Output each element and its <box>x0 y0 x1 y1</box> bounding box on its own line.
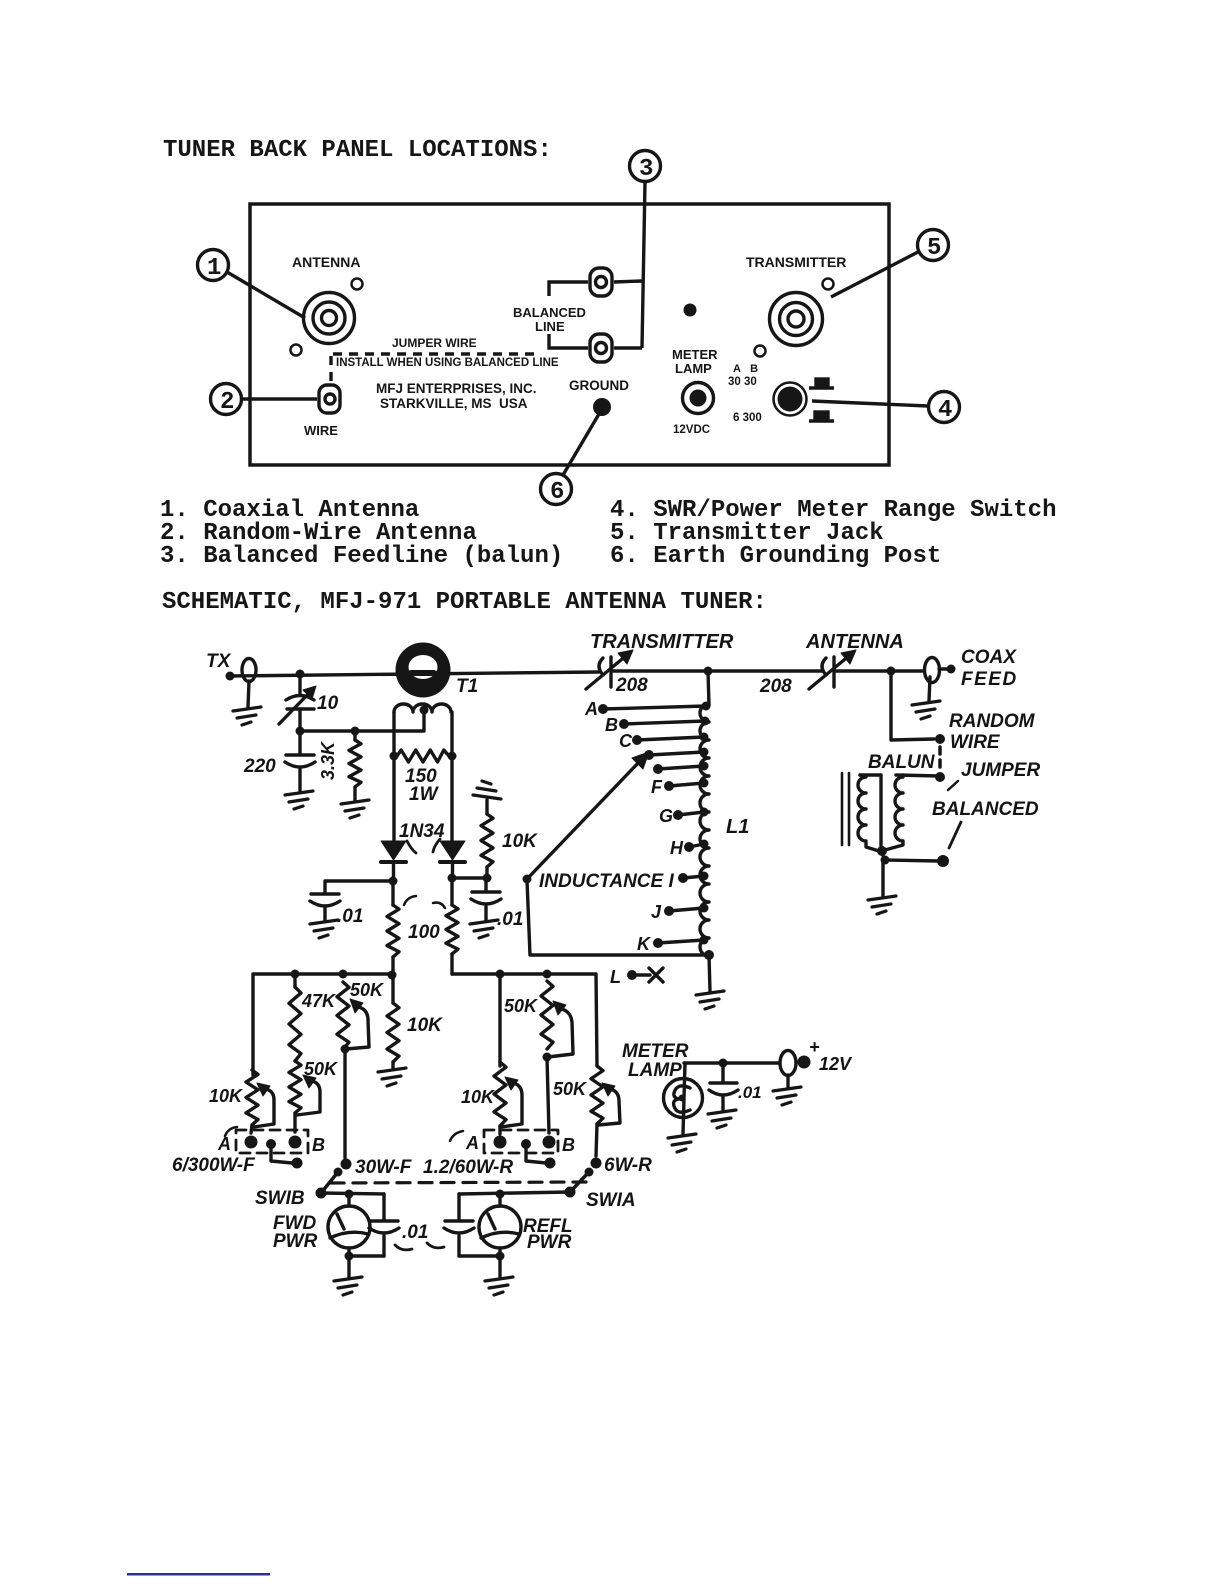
capacitor .01 lamp <box>709 1063 738 1110</box>
svg-text:50K: 50K <box>553 1079 588 1099</box>
node FWD meter top <box>345 1190 354 1199</box>
potentiometer 50K fifth <box>591 1066 620 1156</box>
wire mid contact to 6/300W-F <box>271 1144 292 1163</box>
T1 secondary winding <box>394 704 451 712</box>
node TX input <box>226 672 235 681</box>
ground under 220 <box>285 791 313 809</box>
svg-text:TRANSMITTER: TRANSMITTER <box>746 254 846 270</box>
node coax feed tip <box>947 665 956 674</box>
tap D <box>644 748 709 761</box>
node D1 cathode <box>389 877 398 886</box>
wiper arrow to tap D <box>527 752 649 879</box>
svg-text:47K: 47K <box>301 991 337 1011</box>
wire REFL top <box>459 1192 570 1194</box>
node JUMPER post <box>935 772 945 782</box>
node coil top junction <box>704 667 713 676</box>
wire balun to balanced post <box>882 851 938 861</box>
svg-text:2: 2 <box>220 389 234 416</box>
wire balun top to jumper post <box>896 775 940 776</box>
svg-text:ANTENNA: ANTENNA <box>292 254 360 270</box>
svg-text:12VDC: 12VDC <box>673 424 710 436</box>
tap C <box>619 731 709 751</box>
callout 4 <box>812 392 960 423</box>
capacitor .01 right <box>471 878 501 921</box>
balun left winding <box>858 775 879 851</box>
wire lamp to 12V <box>684 1061 779 1064</box>
node 150 ohm left <box>390 752 399 761</box>
svg-text:T1: T1 <box>456 676 478 697</box>
svg-text:.01: .01 <box>402 1222 428 1243</box>
callout 3 <box>630 151 661 349</box>
capacitor C 10 (variable) <box>279 674 316 731</box>
svg-text:SWIA: SWIA <box>586 1190 636 1211</box>
switch contact A right <box>494 1136 507 1149</box>
switch SW1A wiper <box>565 1168 594 1198</box>
antenna SO-239 jack <box>291 279 363 356</box>
svg-text:METER: METER <box>622 1041 689 1062</box>
svg-text:INDUCTANCE I: INDUCTANCE I <box>539 871 674 892</box>
svg-text:6: 6 <box>550 479 564 506</box>
svg-text:30 30: 30 30 <box>728 376 757 388</box>
svg-text:10: 10 <box>317 693 339 714</box>
node FWD meter bottom <box>345 1252 354 1261</box>
capacitor 220 <box>285 731 315 791</box>
svg-text:A: A <box>217 1134 231 1154</box>
node REFL meter bottom <box>496 1252 505 1261</box>
svg-text:STARKVILLE, MS USA: STARKVILLE, MS USA <box>380 396 528 411</box>
node balun bottom second <box>881 856 890 865</box>
node contact 6W-R <box>591 1158 602 1169</box>
wire bus to 10K right <box>498 974 501 1066</box>
svg-text:220: 220 <box>243 756 276 777</box>
svg-text:L1: L1 <box>726 816 749 838</box>
earth ground post <box>593 398 611 416</box>
svg-text:LAMP: LAMP <box>675 361 712 376</box>
svg-text:J: J <box>651 902 662 922</box>
ground under REFL meter <box>485 1277 513 1295</box>
switch contact B right <box>543 1136 556 1149</box>
callout 1 <box>198 250 306 319</box>
svg-text:BALANCED: BALANCED <box>513 305 586 320</box>
svg-text:A: A <box>584 699 598 719</box>
coax feed loop <box>925 658 949 683</box>
svg-text:3.3K: 3.3K <box>318 740 338 780</box>
svg-text:100: 100 <box>408 922 440 943</box>
svg-text:GROUND: GROUND <box>569 378 629 393</box>
node 50K third bottom <box>341 1045 350 1054</box>
callout 6 <box>541 414 600 505</box>
svg-text:50K: 50K <box>304 1059 339 1079</box>
capacitor 208 antenna (variable) <box>809 650 856 689</box>
ground at TX <box>233 707 261 725</box>
node bus 50K fourth <box>543 970 552 979</box>
jumper wire dashed line <box>331 354 541 386</box>
tap B <box>605 715 710 735</box>
switch SW1B wiper <box>316 1168 343 1199</box>
resistor 10K pulldown <box>481 800 493 878</box>
connector 12V <box>780 1051 811 1088</box>
tap H <box>670 838 709 858</box>
svg-text:H: H <box>670 838 684 858</box>
arc mark left box <box>225 1127 237 1136</box>
svg-text:10K: 10K <box>407 1015 443 1036</box>
svg-text:TRANSMITTER: TRANSMITTER <box>590 631 734 653</box>
node 50K fourth bottom <box>543 1053 552 1062</box>
svg-text:C: C <box>619 731 633 751</box>
callout 5 <box>831 230 949 298</box>
wire junction to coil top <box>708 671 709 705</box>
node wafer common <box>523 875 532 884</box>
panel outline <box>250 204 889 465</box>
node coil bottom <box>704 950 714 960</box>
svg-text:5: 5 <box>927 235 941 262</box>
tick arcs near 100 <box>404 896 445 908</box>
svg-text:BALANCED: BALANCED <box>932 799 1039 820</box>
wire T1 secondary left lead <box>392 712 395 841</box>
node antenna output junction <box>887 667 896 676</box>
ground under coil <box>696 991 724 1009</box>
tap K <box>637 934 709 954</box>
balanced post bracket <box>549 281 642 348</box>
blue footer line <box>127 1573 270 1576</box>
svg-text:PWR: PWR <box>273 1231 318 1252</box>
capacitor .01 left <box>310 881 393 921</box>
node junction C10 <box>296 670 305 679</box>
svg-text:METER: METER <box>672 347 718 362</box>
wire binding post <box>319 385 340 413</box>
potentiometer 10K right <box>494 1062 522 1134</box>
wire to random wire post <box>891 671 934 740</box>
svg-text:6W-R: 6W-R <box>604 1155 652 1176</box>
lamp filament dot <box>679 1095 686 1102</box>
switch contact A left <box>245 1136 258 1149</box>
node D2 cathode <box>448 874 457 883</box>
svg-text:B: B <box>312 1135 325 1155</box>
wire jumper dashed <box>938 747 942 771</box>
wire switch wafer outline <box>527 880 709 955</box>
capacitor .01 FWD <box>349 1194 399 1256</box>
dashed wafer box right <box>484 1130 558 1153</box>
node junction under C10 <box>296 727 305 736</box>
switch position icon lower <box>809 412 834 421</box>
node junction 3.3K <box>351 727 360 736</box>
svg-text:BALUN: BALUN <box>868 752 936 773</box>
node REFL meter top <box>496 1190 505 1199</box>
ground flipped above 10K <box>473 781 501 799</box>
pointer stroke balanced <box>949 822 961 848</box>
switch contact B left <box>289 1136 302 1149</box>
ground under left .01 <box>310 920 338 938</box>
svg-text:6/300W-F: 6/300W-F <box>172 1155 256 1176</box>
inductor L1 coil <box>700 704 709 956</box>
potentiometer 50K second <box>289 1061 320 1132</box>
node balun bottom <box>877 846 887 856</box>
meter REFL PWR <box>479 1194 521 1277</box>
svg-text:50K: 50K <box>350 980 385 1000</box>
transmitter SO-239 jack <box>755 279 834 357</box>
wire left bus <box>253 974 392 1075</box>
svg-text:ANTENNA: ANTENNA <box>805 631 904 653</box>
switch contact mid right <box>521 1139 531 1149</box>
range switch knob <box>774 383 807 416</box>
svg-text:L: L <box>610 967 621 987</box>
svg-text:208: 208 <box>759 676 792 697</box>
wire main line TX to transmitter cap <box>230 672 599 676</box>
ground under lamp cap <box>708 1110 736 1128</box>
callout 2 <box>211 384 318 415</box>
wire T1 secondary right lead <box>450 712 453 841</box>
node bus 47K <box>291 970 300 979</box>
svg-text:30W-F: 30W-F <box>355 1157 413 1178</box>
wire antenna cap to coax <box>836 669 922 672</box>
svg-text:INSTALL WHEN USING BALANCED LI: INSTALL WHEN USING BALANCED LINE <box>336 357 559 369</box>
tick arcs near 1N34 <box>407 839 440 853</box>
diode D2 1N34 <box>440 841 465 878</box>
meter lamp jack <box>683 383 714 414</box>
ground under balun <box>868 896 896 914</box>
node 10K bottom <box>483 874 492 883</box>
dashed gang linkage <box>331 1182 586 1183</box>
meter FWD PWR <box>328 1194 370 1277</box>
resistor 150 1W <box>397 750 449 762</box>
svg-text:10K: 10K <box>502 831 538 852</box>
balun right winding <box>885 775 903 850</box>
transformer T1 toroid <box>396 643 451 698</box>
ground under coax loop <box>929 677 930 701</box>
svg-text:3: 3 <box>639 156 653 183</box>
svg-text:50K: 50K <box>504 996 539 1016</box>
svg-text:.01: .01 <box>337 906 363 927</box>
tap G <box>659 806 709 826</box>
svg-text:A B: A B <box>733 363 758 375</box>
svg-text:WIRE: WIRE <box>304 423 338 438</box>
balanced line post upper <box>590 268 612 296</box>
switch position icon upper <box>809 379 834 388</box>
wire D2 to 10K <box>452 876 487 879</box>
resistor 100 left <box>387 881 399 976</box>
resistor 10K to ground <box>387 976 399 1068</box>
resistor 3.3K <box>349 731 361 801</box>
ground under 3.3K <box>341 800 369 818</box>
svg-text:A: A <box>465 1133 479 1153</box>
tick arcs under .01 <box>395 1243 444 1250</box>
svg-text:208: 208 <box>615 675 648 696</box>
svg-text:4: 4 <box>938 397 952 424</box>
svg-text:SWIB: SWIB <box>255 1188 305 1209</box>
svg-text:TX: TX <box>206 651 232 672</box>
node BALANCED post <box>937 855 949 867</box>
ground under FWD meter <box>334 1277 362 1295</box>
svg-text:FEED: FEED <box>961 669 1018 690</box>
wire between 208 caps <box>613 669 822 672</box>
svg-text:B: B <box>562 1135 575 1155</box>
svg-text:10K: 10K <box>461 1087 496 1107</box>
node contact 1.2/60W-R <box>545 1158 556 1169</box>
wire balun to ground <box>881 860 884 896</box>
svg-text:10K: 10K <box>209 1086 244 1106</box>
capacitor 208 transmitter (variable) <box>586 650 633 689</box>
switch contact mid left <box>266 1139 276 1149</box>
lamp meter lamp <box>664 1063 703 1134</box>
svg-text:.01: .01 <box>497 909 523 930</box>
svg-text:LAMP: LAMP <box>628 1060 682 1081</box>
svg-text:JUMPER: JUMPER <box>961 760 1040 781</box>
svg-text:1: 1 <box>207 255 221 282</box>
svg-text:B: B <box>605 715 618 735</box>
svg-text:COAX: COAX <box>961 647 1017 668</box>
svg-text:1N34: 1N34 <box>399 821 445 842</box>
svg-text:RANDOM: RANDOM <box>949 711 1036 732</box>
node bus 50K <box>339 970 348 979</box>
wire right bus <box>452 974 597 1066</box>
tap A <box>584 699 711 719</box>
tap L unused with X <box>610 967 663 987</box>
tap I with INDUCTANCE label <box>539 871 709 892</box>
node contact 6/300W-F <box>292 1158 303 1169</box>
svg-text:1.2/60W-R: 1.2/60W-R <box>423 1157 513 1178</box>
panel screw dot <box>684 304 697 317</box>
balanced line post lower <box>590 334 612 362</box>
node T1 center tap <box>420 706 429 715</box>
potentiometer 50K third <box>337 982 369 1158</box>
resistor 47K <box>289 974 301 1061</box>
ground under right .01 <box>470 920 498 938</box>
dashed wafer box left <box>236 1130 308 1153</box>
pointer stroke jumper <box>948 781 958 790</box>
tap J <box>651 902 709 922</box>
potentiometer 50K fourth <box>541 981 573 1133</box>
svg-text:SCHEMATIC, MFJ-971 PORTABLE AN: SCHEMATIC, MFJ-971 PORTABLE ANTENNA TUNE… <box>162 589 767 616</box>
diode D1 1N34 <box>381 841 406 881</box>
arc mark right box <box>450 1131 463 1141</box>
wire coil bottom to ground <box>709 955 710 991</box>
svg-text:PWR: PWR <box>527 1232 572 1253</box>
svg-text:G: G <box>659 806 673 826</box>
node RANDOM WIRE post <box>935 734 945 744</box>
resistor 100 right <box>446 878 458 974</box>
capacitor .01 REFL <box>444 1194 500 1256</box>
svg-text:3. Balanced Feedline (balun): 3. Balanced Feedline (balun) <box>160 543 563 570</box>
tap E <box>653 762 709 775</box>
wire to T1 secondary center tap <box>300 710 424 731</box>
balun core lines <box>842 773 849 845</box>
wire mid contact to 1.2/60W-R <box>526 1144 546 1163</box>
node bus 10K right <box>496 970 505 979</box>
svg-text:WIRE: WIRE <box>950 732 1001 753</box>
svg-text:K: K <box>637 934 652 954</box>
node contact 30W-F <box>341 1159 352 1170</box>
svg-text:TUNER BACK PANEL LOCATIONS:: TUNER BACK PANEL LOCATIONS: <box>163 137 552 164</box>
ground under lamp <box>668 1134 696 1152</box>
coax input loop <box>242 659 256 708</box>
svg-text:1W: 1W <box>409 784 440 805</box>
svg-text:LINE: LINE <box>535 319 565 334</box>
node 150 ohm right <box>448 752 457 761</box>
node bus 100 left <box>388 971 397 980</box>
balun inner lead <box>860 775 881 849</box>
potentiometer 10K left <box>246 1070 274 1133</box>
svg-text:F: F <box>651 777 663 797</box>
svg-text:12V: 12V <box>819 1054 853 1074</box>
wire SW1B to meter <box>321 1193 384 1194</box>
svg-text:.01: .01 <box>738 1083 762 1102</box>
svg-text:JUMPER WIRE: JUMPER WIRE <box>392 336 477 350</box>
svg-text:MFJ ENTERPRISES, INC.: MFJ ENTERPRISES, INC. <box>376 381 537 396</box>
tap F <box>651 777 709 797</box>
ground under 10K mid <box>378 1068 406 1086</box>
ground under 12V <box>773 1087 801 1105</box>
svg-text:6 300: 6 300 <box>733 412 762 424</box>
node lamp cap junction <box>719 1059 728 1068</box>
svg-text:6. Earth Grounding Post: 6. Earth Grounding Post <box>610 543 941 570</box>
